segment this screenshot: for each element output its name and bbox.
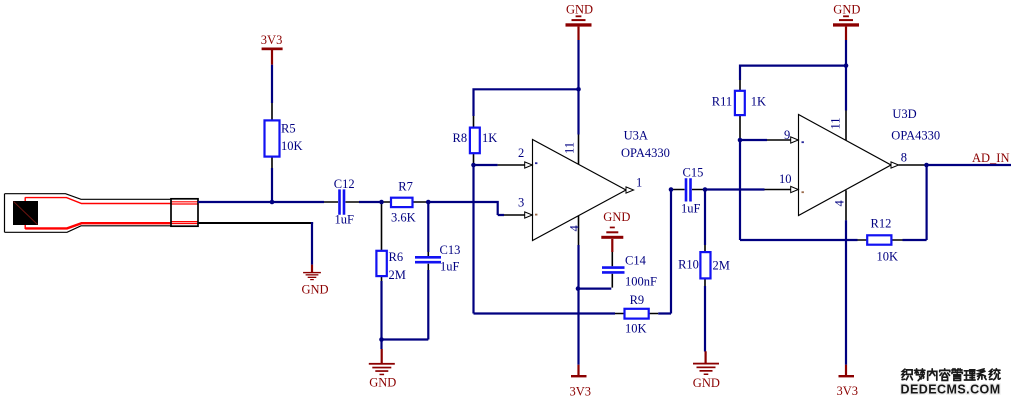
svg-text:2M: 2M <box>389 268 406 282</box>
svg-text:9: 9 <box>784 128 790 142</box>
svg-text:3V3: 3V3 <box>570 384 592 398</box>
svg-text:10K: 10K <box>877 250 899 264</box>
svg-text:GND: GND <box>566 3 593 17</box>
svg-text:8: 8 <box>901 150 907 164</box>
svg-text:10: 10 <box>779 172 792 186</box>
svg-text:C15: C15 <box>683 165 704 179</box>
svg-text:OPA4330: OPA4330 <box>621 146 670 160</box>
svg-text:DEDECMS.COM: DEDECMS.COM <box>901 383 1001 397</box>
svg-text:1K: 1K <box>482 131 497 145</box>
svg-text:1: 1 <box>636 176 642 190</box>
svg-text:2: 2 <box>518 146 524 160</box>
svg-text:R11: R11 <box>712 95 732 109</box>
svg-text:GND: GND <box>603 210 630 224</box>
svg-text:3V3: 3V3 <box>837 384 859 398</box>
svg-text:2M: 2M <box>713 259 730 273</box>
svg-text:GND: GND <box>369 376 396 390</box>
svg-text:3.6K: 3.6K <box>391 211 416 225</box>
svg-text:11: 11 <box>563 142 577 154</box>
svg-text:R7: R7 <box>398 180 413 194</box>
svg-text:1uF: 1uF <box>681 202 701 216</box>
svg-text:R9: R9 <box>630 293 645 307</box>
svg-text:GND: GND <box>302 283 329 297</box>
svg-text:10K: 10K <box>625 322 647 336</box>
svg-text:4: 4 <box>568 225 582 232</box>
svg-text:GND: GND <box>833 3 860 17</box>
svg-text:11: 11 <box>829 117 843 129</box>
svg-text:1uF: 1uF <box>440 260 460 274</box>
svg-text:1K: 1K <box>751 95 766 109</box>
svg-text:10K: 10K <box>281 139 303 153</box>
svg-text:GND: GND <box>693 376 720 390</box>
svg-text:R6: R6 <box>389 250 404 264</box>
svg-text:R10: R10 <box>678 257 699 271</box>
svg-text:R5: R5 <box>281 122 296 136</box>
svg-text:C14: C14 <box>625 253 647 267</box>
svg-text:1uF: 1uF <box>335 213 355 227</box>
svg-text:AD_IN: AD_IN <box>972 151 1010 165</box>
svg-text:U3D: U3D <box>892 107 916 121</box>
svg-text:3V3: 3V3 <box>261 33 283 47</box>
svg-text:U3A: U3A <box>624 128 648 142</box>
svg-text:C12: C12 <box>334 177 355 191</box>
svg-text:3: 3 <box>518 196 524 210</box>
svg-text:C13: C13 <box>440 243 461 257</box>
svg-text:OPA4330: OPA4330 <box>891 129 940 143</box>
svg-text:R12: R12 <box>871 216 892 230</box>
svg-text:100nF: 100nF <box>625 275 657 289</box>
svg-text:R8: R8 <box>453 131 468 145</box>
svg-text:4: 4 <box>833 200 847 207</box>
